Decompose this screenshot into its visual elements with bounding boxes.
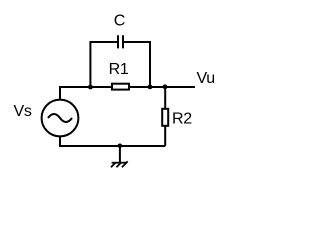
svg-text:R2: R2 [172,111,192,128]
svg-text:C: C [114,13,126,30]
svg-text:R1: R1 [109,61,129,78]
source Vs (AC) [42,100,79,137]
wire R2 branch vertical [164,87,166,146]
node junction dot capacitor right [148,85,153,90]
capacitor C [118,35,123,48]
node junction dot capacitor left [88,85,93,90]
node junction dot ground [118,144,123,149]
node junction dot R2 top [163,84,168,89]
wire top horizontal main node from Vs to Vu [60,87,195,100]
ground [111,146,128,167]
svg-text:Vs: Vs [14,103,32,120]
svg-text:Vu: Vu [197,70,215,87]
sine wave inside source [48,114,72,122]
resistor R1 [112,84,129,90]
wire capacitor branch left riser [90,42,118,87]
resistor R2 [162,109,168,126]
wire capacitor branch right riser [123,42,150,87]
wire bottom return from Vs to R2 [60,136,165,146]
